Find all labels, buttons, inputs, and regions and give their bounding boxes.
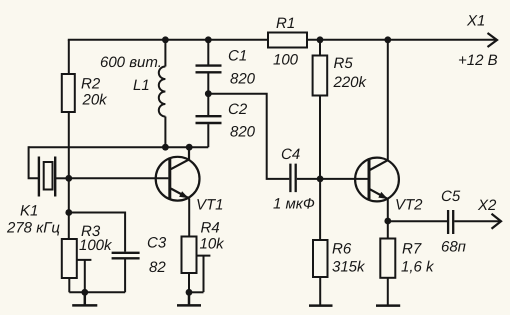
wire VT2 collector riser xyxy=(387,40,389,160)
ground under R6 xyxy=(309,304,333,307)
svg-text:82: 82 xyxy=(149,259,166,276)
node dot R3 top xyxy=(65,209,72,216)
ground under R7 xyxy=(376,304,400,307)
wire R7 bottom xyxy=(387,278,389,305)
svg-text:R2: R2 xyxy=(81,76,101,93)
svg-text:20k: 20k xyxy=(82,92,109,109)
svg-text:VT1: VT1 xyxy=(196,196,224,213)
wire L1 bottom xyxy=(164,117,166,148)
svg-text:C3: C3 xyxy=(147,235,167,252)
wire L1 top xyxy=(164,40,166,67)
node X1 arrowhead xyxy=(488,33,498,47)
node dot C1-C2 xyxy=(205,90,212,97)
svg-text:R5: R5 xyxy=(334,55,354,72)
trimmer tap R3 xyxy=(77,260,92,292)
svg-text:100: 100 xyxy=(273,52,299,69)
svg-text:R6: R6 xyxy=(332,240,352,257)
inductor L1 xyxy=(159,67,166,117)
svg-text:C2: C2 xyxy=(228,101,248,118)
svg-text:820: 820 xyxy=(230,71,256,88)
resistor R4 xyxy=(182,237,197,274)
wire output to C5 xyxy=(388,220,447,222)
wire R6 top xyxy=(319,179,321,240)
wire C3 top riser xyxy=(124,212,126,252)
node dot C1 top xyxy=(205,36,212,43)
node dot L1 bottom xyxy=(162,144,169,151)
wire VT1 base xyxy=(69,177,169,179)
svg-text:1 мкФ: 1 мкФ xyxy=(273,196,315,213)
svg-text:100k: 100k xyxy=(79,237,113,254)
wire crystal right to base node xyxy=(56,177,69,179)
wire VT2 emitter down xyxy=(387,199,389,221)
node dot VT2 collector top xyxy=(384,36,391,43)
svg-text:C5: C5 xyxy=(441,188,461,205)
svg-text:K1: K1 xyxy=(20,202,38,219)
wire top rail right of R1 xyxy=(307,39,496,41)
node dot R5 top xyxy=(317,36,324,43)
node dot VT2 emitter xyxy=(384,218,391,225)
node dot VT2 base xyxy=(317,176,324,183)
transistor VT2 xyxy=(355,158,399,202)
wire C4 to VT2 base xyxy=(297,178,368,180)
svg-text:VT2: VT2 xyxy=(395,197,423,214)
capacitor C5 xyxy=(448,210,453,234)
svg-text:X2: X2 xyxy=(477,197,497,214)
wire left vertical R2 top xyxy=(68,40,70,74)
svg-text:R7: R7 xyxy=(402,240,422,257)
svg-text:L1: L1 xyxy=(133,77,150,94)
node dot R3 ground xyxy=(81,289,88,296)
resistor R6 xyxy=(313,240,328,277)
svg-text:68п: 68п xyxy=(441,238,466,255)
resistor R5 xyxy=(313,56,328,96)
resistor R3 xyxy=(62,239,77,278)
capacitor C2 xyxy=(196,116,222,123)
node dot VT1 collector xyxy=(186,144,193,151)
capacitor C3 xyxy=(112,253,140,258)
wire R5 top xyxy=(319,40,321,56)
svg-text:820: 820 xyxy=(230,124,256,141)
wire C5 to X2 xyxy=(454,220,500,222)
wire R3 node to C3 xyxy=(69,212,125,214)
svg-text:278 кГц: 278 кГц xyxy=(6,220,60,237)
crystal K1 xyxy=(39,157,55,197)
wire C1 to C2 node xyxy=(207,74,209,116)
svg-text:R1: R1 xyxy=(276,15,295,32)
wire R7 top xyxy=(387,221,389,239)
ground under R3 xyxy=(72,292,97,305)
svg-text:220k: 220k xyxy=(333,74,368,91)
svg-text:600 вит.: 600 вит. xyxy=(100,54,162,71)
svg-text:C1: C1 xyxy=(228,48,247,65)
wire C3 bottom riser xyxy=(124,259,126,292)
resistor R1 xyxy=(268,33,307,48)
svg-text:R4: R4 xyxy=(201,220,220,237)
trimmer tap R4 xyxy=(197,256,211,293)
svg-text:1,6 k: 1,6 k xyxy=(401,259,435,276)
resistor R7 xyxy=(380,239,395,278)
wire R3 bottom rail xyxy=(69,291,125,293)
svg-text:10k: 10k xyxy=(200,235,226,252)
node X2 arrowhead xyxy=(492,214,502,229)
wire C2 bottom xyxy=(207,124,209,147)
node dot L1 top xyxy=(162,36,169,43)
node dot R4 ground xyxy=(186,289,193,296)
wire R4 bottom stem xyxy=(188,273,190,292)
wire top rail +12V xyxy=(69,39,268,40)
wire coupling branch to C4 xyxy=(208,94,289,179)
wire left vertical R2 bottom to R3 xyxy=(68,112,70,239)
svg-text:315k: 315k xyxy=(332,259,366,276)
svg-text:+12 В: +12 В xyxy=(458,52,498,69)
wire C1 top xyxy=(207,40,209,65)
wire VT1 emitter down xyxy=(188,198,190,236)
wire R6 bottom xyxy=(319,277,321,305)
wire tank rail node A xyxy=(29,146,209,148)
capacitor C4 xyxy=(290,164,295,193)
wire R4 bottom rail xyxy=(189,291,204,293)
capacitor C1 xyxy=(196,66,222,73)
wire crystal bracket xyxy=(29,146,38,178)
transistor VT1 xyxy=(156,147,200,200)
wire R3 bottom stem xyxy=(68,278,70,292)
ground under R4 xyxy=(177,292,201,305)
svg-text:C4: C4 xyxy=(281,146,300,163)
resistor R2 xyxy=(62,74,75,112)
svg-text:X1: X1 xyxy=(466,12,485,29)
wire R5 bottom xyxy=(319,96,321,179)
node dot VT1 base xyxy=(65,175,72,182)
